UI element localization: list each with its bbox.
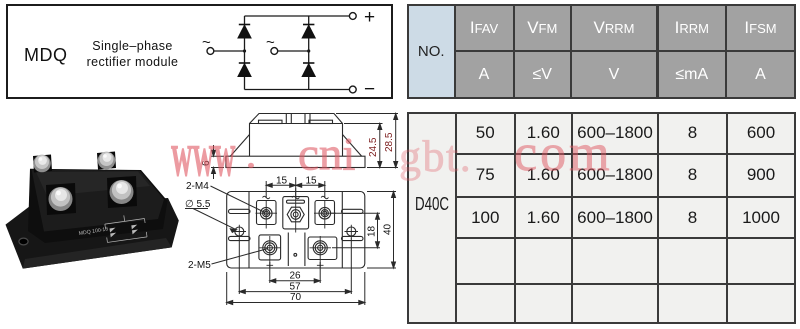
wire AC1 to left branch (214, 50, 245, 52)
svg-text:57: 57 (290, 281, 302, 292)
plan mounting hole right (345, 225, 359, 239)
wire left branch (244, 16, 246, 90)
header unit <=V (515, 52, 571, 97)
NO. column cell (409, 6, 454, 97)
header IFSM (727, 6, 794, 50)
terminal AC input 1 (207, 48, 214, 55)
terminal AC input 2 (271, 48, 278, 55)
plan pad center stud (283, 197, 309, 229)
plan slot right bottom (342, 236, 364, 240)
svg-text:70: 70 (290, 292, 302, 303)
label 2-M5 with leader (188, 249, 268, 272)
label dia 5.5 with leader (185, 199, 237, 232)
header VFM (515, 6, 571, 50)
row 5 empty (457, 285, 514, 323)
row 4 empty (457, 239, 514, 283)
svg-text:~: ~ (266, 34, 275, 51)
svg-text:6: 6 (201, 160, 212, 166)
diode D1 top-left (238, 25, 251, 38)
terminal + output (349, 13, 356, 20)
plan pad top-left M4 (257, 201, 277, 225)
row 3 (457, 198, 514, 237)
photo terminal front-left pedestal (46, 183, 76, 215)
svg-text:2-M4: 2-M4 (186, 181, 209, 192)
photo terminal back-right (98, 152, 116, 170)
photo module top face (32, 170, 165, 232)
svg-text:24.5: 24.5 (368, 137, 379, 157)
plan center channel (288, 233, 305, 267)
dim 40 (367, 192, 396, 269)
svg-text:18: 18 (367, 225, 378, 237)
node junction left branch (243, 49, 246, 52)
photo terminal front-right (110, 180, 134, 204)
plan centerlines top pads (256, 188, 337, 268)
header unit A (456, 52, 513, 97)
dim 57 (239, 238, 351, 294)
svg-text:+: + (364, 7, 375, 28)
photo flange front bevel highlight (23, 238, 172, 269)
body D40C rowspan cell (409, 114, 455, 322)
row 1 (457, 114, 514, 153)
svg-text:~: ~ (202, 34, 211, 51)
svg-text:−: − (364, 79, 375, 100)
side view chamfer line (250, 123, 343, 125)
photo module flange plate (6, 198, 179, 269)
dim 15-15 (266, 176, 325, 199)
dim 28.5 (336, 114, 398, 168)
plan slot right top (342, 209, 364, 213)
dim 24.5 (344, 124, 383, 168)
svg-text:15: 15 (306, 176, 318, 187)
svg-text:15: 15 (276, 176, 288, 187)
photo terminal back-left pedestal (33, 155, 52, 173)
plan view outline (227, 192, 365, 269)
wire top rail (245, 15, 350, 17)
wire right branch (308, 16, 310, 90)
header IRRM (659, 6, 726, 50)
wire bottom rail (245, 89, 350, 91)
photo terminal front-left (49, 187, 73, 211)
plan mounting hole left (233, 225, 247, 239)
plan inner right line (341, 192, 343, 269)
dim 70 (227, 272, 365, 305)
plan slot left bottom (229, 236, 251, 240)
photo printed bridge symbol (104, 213, 147, 243)
side view slot left (259, 120, 283, 123)
photo terminal front-right pedestal (107, 176, 137, 208)
label 2-M4 with leader (186, 181, 265, 213)
header IFAV (456, 6, 513, 50)
node junction right branch (307, 49, 310, 52)
dim 18 (331, 213, 380, 248)
dim 26 (270, 262, 320, 283)
photo module body (28, 169, 168, 243)
header unit A2 (727, 52, 794, 97)
svg-text:40: 40 (383, 223, 394, 235)
header unit <=mA (659, 52, 726, 97)
svg-text:2-M5: 2-M5 (188, 260, 211, 271)
side view terminal ticks (286, 114, 310, 124)
side view slot right (309, 120, 333, 123)
side view flange (226, 156, 365, 167)
svg-text:26: 26 (290, 271, 302, 282)
terminal - output (349, 86, 356, 93)
plan inner left line (248, 192, 250, 269)
diode D3 top-right (302, 25, 315, 38)
header unit V (572, 52, 656, 97)
side view body outline (250, 114, 343, 157)
plan AC tilde marks (263, 196, 329, 199)
svg-text:28.5: 28.5 (384, 132, 395, 152)
diode D2 bottom-left (238, 63, 251, 76)
plan pad top-right M4 (315, 201, 335, 225)
plan pad bottom-right M5 (308, 237, 337, 260)
plan slot left top (229, 209, 251, 213)
row 2 (457, 155, 514, 197)
header VRRM (572, 6, 656, 50)
photo flange mounting hole (19, 238, 28, 245)
photo terminal back-right pedestal (97, 152, 116, 170)
photo terminal back-left (33, 155, 51, 173)
photo top face sheen (36, 172, 150, 197)
wire AC2 to right branch (278, 50, 309, 52)
side view buttress left (230, 135, 249, 157)
plan pad bottom-left M5 (259, 235, 281, 260)
diode D4 bottom-right (302, 63, 315, 76)
dim 6 flange height (201, 145, 224, 179)
side view buttress right (343, 135, 362, 157)
